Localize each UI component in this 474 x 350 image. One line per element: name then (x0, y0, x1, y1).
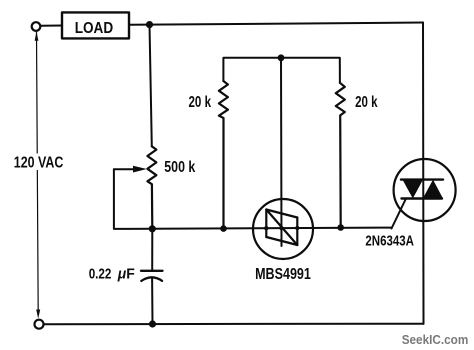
svg-text:20 k: 20 k (355, 94, 377, 111)
capacitor C1 plates (141, 270, 163, 272)
resistor R2 20k left (219, 81, 228, 229)
node capacitor bottom (149, 320, 156, 327)
label 120 VAC (11, 154, 67, 171)
svg-text:LOAD: LOAD (75, 20, 114, 37)
svg-text:μF: μF (117, 265, 135, 282)
wire wire2 node down into SBS (280, 58, 283, 246)
triac Q1 left triangle (403, 180, 424, 199)
capacitor C1 top lead (151, 229, 153, 271)
SBS U1 symbol (265, 210, 267, 238)
triac Q1 top bar (401, 178, 443, 180)
source line thin (37, 32, 39, 314)
potentiometer R1 500k (147, 146, 156, 229)
wire T1 to LOAD (41, 25, 62, 27)
wire top (LOAD to top-right corner) (130, 23, 424, 25)
node left 20k bottom (220, 225, 227, 232)
triac Q1 bottom bar (402, 197, 443, 199)
potentiometer wiper arrow (114, 168, 134, 170)
capacitor C1 bottom lead (151, 278, 153, 325)
wire right vertical through triac (422, 23, 425, 324)
wire 2 horizontal with end turns (223, 58, 340, 83)
node right 20k bottom (337, 224, 344, 231)
node junction top (146, 21, 153, 28)
source arrow down (36, 310, 40, 319)
svg-text:20 k: 20 k (189, 94, 212, 111)
node wire2 center (278, 54, 285, 61)
wire 3 horizontal (152, 228, 391, 229)
svg-text:2N6343A: 2N6343A (365, 233, 414, 249)
triac Q1 circle (394, 159, 456, 221)
svg-text:SeekIC.com: SeekIC.com (402, 332, 469, 347)
node SBS crossings (264, 226, 268, 230)
triac Q1 right triangle (423, 180, 443, 199)
wire junction down to potentiometer (150, 25, 152, 147)
terminal T2 bottom-left (35, 320, 44, 329)
wire gate diagonal (392, 199, 407, 229)
wire wiper return (114, 169, 152, 229)
SBS U1 circle (253, 199, 313, 259)
wire bottom (44, 323, 424, 326)
source arrow up (35, 32, 39, 41)
load box (62, 12, 129, 38)
resistor R3 20k right (336, 83, 345, 228)
svg-text:500 k: 500 k (164, 159, 195, 176)
svg-text:MBS4991: MBS4991 (255, 266, 311, 283)
node pot bottom (149, 225, 156, 232)
svg-text:0.22: 0.22 (89, 265, 112, 282)
terminal T1 top-left (32, 22, 41, 31)
svg-text:120 VAC: 120 VAC (14, 154, 64, 171)
